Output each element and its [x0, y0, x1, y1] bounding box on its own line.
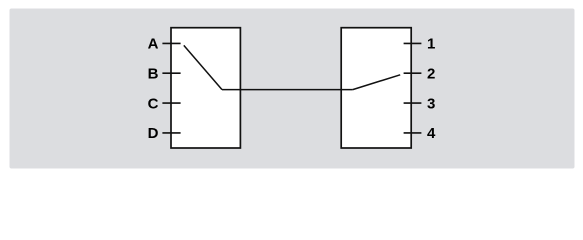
gray panel background [10, 9, 575, 169]
svg-text:B: B [148, 66, 159, 83]
wire A to node (left switch arm) [184, 45, 222, 89]
wire horizontal connecting boxes [222, 89, 353, 91]
svg-text:C: C [148, 95, 159, 112]
svg-text:2: 2 [427, 66, 435, 83]
svg-text:3: 3 [427, 95, 435, 112]
terminal tick 2 [404, 72, 422, 74]
svg-text:A: A [148, 36, 159, 53]
switch box right (U2) [341, 28, 411, 148]
terminal tick A [162, 42, 180, 44]
wire node to terminal 2 (right switch arm) [353, 75, 401, 90]
terminal tick 4 [404, 132, 422, 134]
terminal tick 3 [404, 102, 422, 104]
svg-text:4: 4 [427, 125, 436, 142]
terminal tick 1 [404, 42, 422, 44]
terminal tick B [162, 72, 180, 74]
svg-text:1: 1 [427, 36, 435, 53]
svg-text:D: D [148, 125, 159, 142]
terminal tick C [162, 102, 180, 104]
switch box left (U1) [171, 28, 240, 148]
terminal tick D [162, 132, 180, 134]
